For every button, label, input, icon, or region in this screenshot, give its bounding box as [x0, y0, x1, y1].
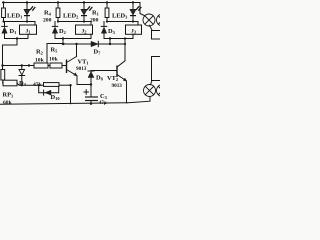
svg-text:10k: 10k	[49, 57, 59, 63]
svg-text:68k: 68k	[3, 100, 13, 106]
svg-text:D3: D3	[108, 28, 116, 35]
svg-text:D4: D4	[19, 80, 27, 87]
svg-text:RP1: RP1	[3, 92, 14, 99]
svg-text:R1: R1	[92, 10, 99, 17]
svg-text:R2: R2	[36, 49, 43, 56]
svg-text:R4: R4	[44, 10, 52, 17]
svg-text:J3: J3	[131, 28, 137, 34]
svg-text:C3: C3	[100, 93, 108, 100]
svg-text:LED1: LED1	[7, 13, 22, 20]
svg-text:200: 200	[90, 18, 99, 24]
svg-text:9013: 9013	[112, 83, 123, 89]
svg-text:D2: D2	[59, 28, 66, 35]
svg-text:10k: 10k	[35, 58, 45, 64]
svg-text:200: 200	[43, 18, 52, 24]
svg-text:9013: 9013	[76, 66, 87, 72]
svg-text:D8: D8	[96, 75, 104, 82]
svg-text:R5: R5	[51, 47, 59, 54]
svg-text:VT2: VT2	[107, 75, 118, 82]
svg-text:D7: D7	[94, 49, 102, 56]
svg-text:LED3: LED3	[112, 13, 128, 20]
svg-text:LED2: LED2	[63, 13, 78, 20]
svg-text:J2: J2	[82, 28, 87, 34]
svg-text:D1: D1	[10, 28, 17, 35]
svg-text:D10: D10	[51, 94, 61, 101]
svg-text:VT1: VT1	[78, 59, 89, 66]
svg-text:J1: J1	[26, 28, 31, 34]
